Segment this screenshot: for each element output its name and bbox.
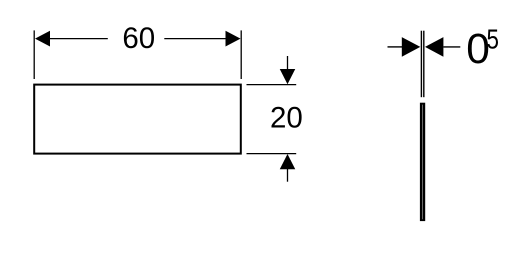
arrowhead bottom (20 dim) bbox=[280, 154, 296, 169]
extension line left (60 dim) bbox=[33, 30, 35, 79]
arrowhead 60 right bbox=[226, 31, 241, 47]
arrowhead right (0.5 dim) bbox=[425, 37, 443, 57]
panel side view extension line right face bbox=[423, 31, 425, 98]
extension line top (20 dim) bbox=[247, 84, 297, 86]
arrowhead top (20 dim) bbox=[280, 69, 296, 84]
arrow stem top (20 dim) bbox=[287, 56, 289, 70]
dimension line 60 left segment bbox=[50, 38, 108, 40]
extension line bottom (20 dim) bbox=[247, 153, 297, 155]
svg-text:60: 60 bbox=[122, 22, 155, 55]
arrow stem bottom (20 dim) bbox=[287, 169, 289, 182]
panel front view outline bbox=[34, 85, 241, 154]
dimension tail left (0.5 dim) bbox=[388, 46, 403, 48]
arrowhead left (0.5 dim) bbox=[402, 37, 421, 57]
svg-text:20: 20 bbox=[270, 102, 303, 135]
panel side view body bbox=[420, 103, 425, 221]
extension line right (60 dim) bbox=[240, 30, 242, 79]
svg-text:5: 5 bbox=[487, 24, 499, 55]
dimension tail right (0.5 dim) bbox=[443, 46, 460, 48]
panel side view extension line left face bbox=[420, 31, 422, 98]
dimension line 60 right segment bbox=[164, 38, 226, 40]
arrowhead 60 left bbox=[35, 31, 50, 47]
